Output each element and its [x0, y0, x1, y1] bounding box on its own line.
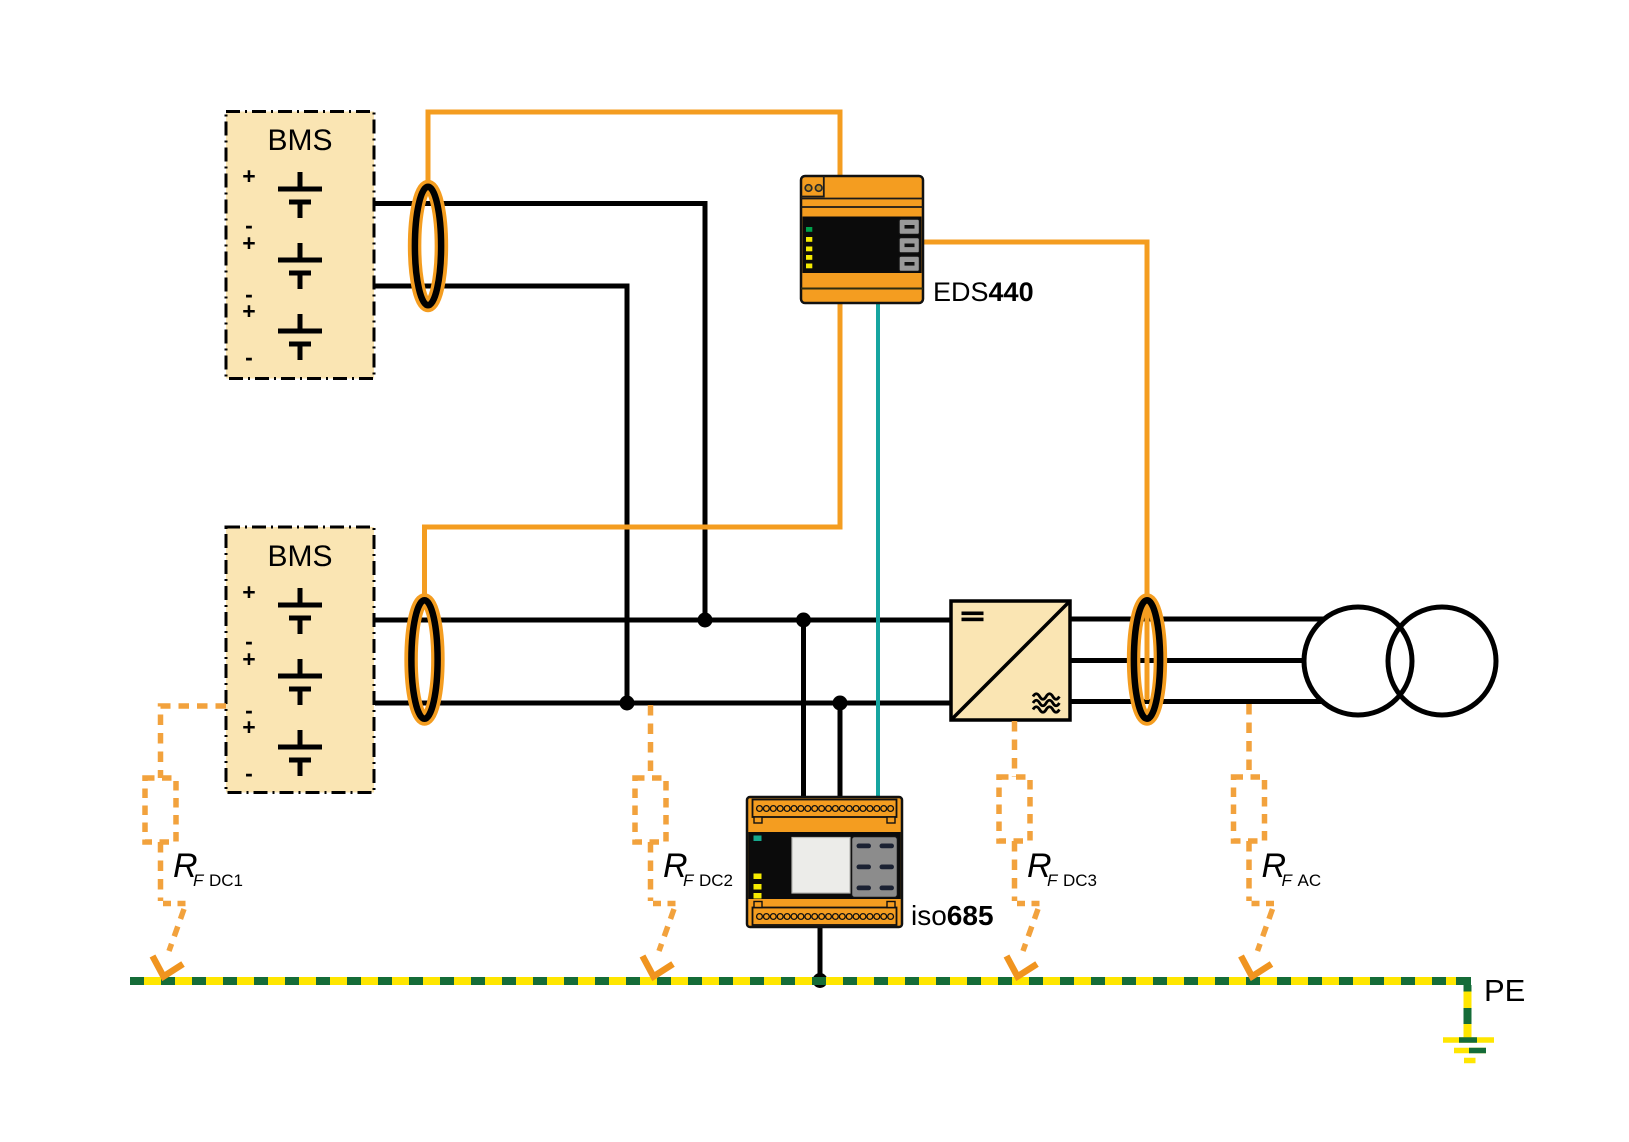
fault resistance RF DC3	[999, 721, 1040, 977]
iso685 top terminal strip	[753, 800, 897, 818]
EDS440 LED green	[806, 227, 812, 232]
svg-text:DC1: DC1	[209, 871, 243, 890]
battery block BMS2	[226, 527, 374, 793]
svg-text:F: F	[683, 871, 695, 890]
RF AC resistor body (dashed)	[1234, 777, 1265, 841]
svg-text:-: -	[245, 344, 253, 370]
fault resistance RF DC2	[635, 705, 676, 977]
battery cell BMS2.1	[278, 588, 322, 634]
svg-text:AC: AC	[1298, 871, 1322, 890]
svg-text:BMS: BMS	[267, 540, 332, 573]
svg-text:+: +	[242, 579, 255, 605]
svg-text:F: F	[1047, 871, 1059, 890]
EDS440 display area	[803, 217, 922, 274]
wire BMS1 positive to DC bus (net L+)	[374, 204, 705, 621]
PE vertical drop right end	[1464, 985, 1472, 1038]
wire AC phase L2 (converter to transformer)	[1070, 658, 1312, 663]
insulation fault locator EDS440	[801, 176, 923, 303]
svg-text:DC3: DC3	[1063, 871, 1097, 890]
iso685 LED teal	[754, 836, 762, 842]
fault resistance RF DC1	[145, 706, 226, 977]
current transformer CT3	[1134, 600, 1161, 719]
RF DC1 lead to arrow	[158, 842, 164, 901]
battery cell BMS1.2	[278, 243, 322, 289]
wire iso685 earth connection to PE	[818, 925, 823, 980]
svg-text:+: +	[242, 646, 255, 672]
svg-text:-: -	[245, 760, 253, 786]
RF DC2 arrow head	[643, 956, 674, 977]
RF DC1 resistor body (dashed)	[145, 778, 176, 842]
wire AC phase L3 (converter to transformer)	[1070, 699, 1340, 704]
wire orange EDS440 bottom to CT2	[425, 303, 841, 598]
ground symbol bar 1	[1443, 1037, 1494, 1043]
RF AC arrow head	[1241, 956, 1272, 977]
junction dot DC+ / iso685 drop	[796, 613, 811, 628]
current transformer CT1	[415, 187, 442, 306]
junction dot DC- / BMS1 wire	[620, 696, 635, 711]
wire AC phase L1 (converter to transformer)	[1070, 617, 1340, 622]
RF DC1 arrow head	[153, 956, 184, 977]
RF AC connector to AC line	[1246, 704, 1252, 777]
wire orange EDS440 right to CT3	[923, 242, 1147, 700]
wire DC bus negative (BMS2 to converter)	[375, 701, 953, 706]
iso685 keypad	[852, 837, 898, 898]
transformer T1	[1304, 607, 1496, 715]
PE bar (green/yellow)	[130, 981, 1494, 1061]
wire drop DC- to iso685 terminal	[838, 703, 843, 799]
EDS440 buttons	[899, 219, 920, 272]
insulation monitoring device iso685	[747, 797, 902, 927]
RF AC lead to arrow	[1246, 841, 1252, 901]
junction dot PE / iso685 earth	[813, 973, 828, 988]
wire BMS1 negative to DC bus (net L-)	[374, 286, 627, 703]
polarity labels BMS2	[242, 579, 255, 786]
wire drop DC+ to iso685 terminal	[801, 620, 806, 799]
polarity labels BMS1	[242, 163, 255, 370]
svg-text:DC2: DC2	[699, 871, 733, 890]
svg-text:+: +	[242, 230, 255, 256]
svg-text:EDS440: EDS440	[933, 277, 1034, 307]
RF DC3 arrow head	[1007, 956, 1038, 977]
wire DC bus positive (BMS2 to converter)	[375, 618, 953, 623]
converter DC/AC U1	[951, 601, 1070, 720]
battery cell BMS2.2	[278, 659, 322, 705]
svg-text:F: F	[1282, 871, 1294, 890]
battery cell BMS1.1	[278, 172, 322, 218]
RF DC1 connector to BMS2	[161, 706, 227, 778]
battery cell BMS1.3	[278, 314, 322, 360]
svg-text:+: +	[242, 298, 255, 324]
RF DC3 resistor body (dashed)	[999, 777, 1030, 841]
svg-text:iso685: iso685	[911, 900, 994, 931]
iso685 display band	[748, 832, 901, 899]
svg-text:PE: PE	[1484, 973, 1525, 1008]
fault resistance RF AC	[1234, 704, 1275, 977]
junction dot DC+ / BMS1 wire	[698, 613, 713, 628]
RF DC2 lead to arrow	[648, 842, 654, 901]
iso685 LCD screen	[792, 838, 850, 894]
svg-text:+: +	[242, 714, 255, 740]
svg-text:F: F	[193, 871, 205, 890]
iso685 bottom terminal strip	[753, 908, 897, 926]
DC symbol	[962, 612, 984, 616]
battery cell BMS2.3	[278, 730, 322, 776]
RF DC3 connector to converter	[1012, 721, 1018, 777]
battery block BMS1	[226, 112, 374, 379]
RF DC2 connector to DC bus	[648, 705, 654, 778]
EDS440 LEDs yellow	[806, 237, 812, 242]
junction dot DC- / iso685 drop	[833, 696, 848, 711]
iso685 LEDs yellow	[754, 874, 762, 880]
EDS440 terminal box top-left	[801, 176, 824, 197]
EDS440 body stripes	[801, 198, 923, 200]
wire teal EDS440 to iso685	[876, 303, 880, 799]
svg-text:BMS: BMS	[267, 124, 332, 157]
wire orange CT1 to EDS440 top	[428, 112, 840, 186]
RF DC2 resistor body (dashed)	[635, 778, 666, 842]
current transformer CT2	[411, 600, 438, 719]
ground symbol bar 3	[1464, 1058, 1476, 1064]
svg-text:+: +	[242, 163, 255, 189]
ground symbol bar 2	[1454, 1048, 1486, 1054]
RF DC3 lead to arrow	[1012, 841, 1018, 901]
AC symbol	[1033, 694, 1059, 713]
